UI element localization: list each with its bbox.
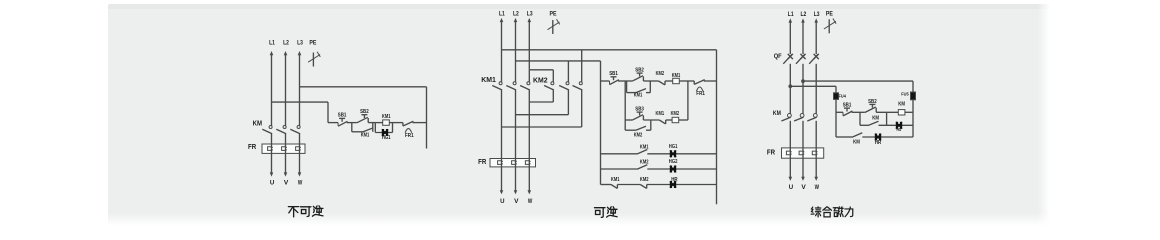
svg-text:KM1: KM1 (382, 114, 391, 120)
svg-text:SB3: SB3 (635, 107, 644, 113)
svg-text:FR1: FR1 (696, 91, 705, 97)
svg-text:L3: L3 (814, 11, 820, 18)
svg-text:W: W (298, 179, 303, 186)
svg-text:KM: KM (253, 120, 263, 127)
svg-text:KM2: KM2 (640, 177, 649, 183)
svg-text:HG1: HG1 (382, 135, 391, 141)
svg-text:KM2: KM2 (656, 71, 665, 77)
svg-text:QF: QF (774, 53, 782, 60)
svg-text:KM2: KM2 (533, 76, 548, 85)
svg-text:KM1: KM1 (611, 177, 620, 183)
svg-text:FU5: FU5 (901, 91, 909, 96)
svg-text:FU4: FU4 (839, 94, 847, 99)
svg-text:KM2: KM2 (671, 111, 680, 117)
svg-text:W: W (528, 198, 533, 205)
svg-text:KM: KM (853, 139, 860, 145)
svg-text:KM1: KM1 (361, 132, 370, 138)
svg-text:PE: PE (550, 10, 557, 17)
svg-text:U: U (270, 179, 275, 186)
svg-text:KM: KM (898, 101, 905, 107)
svg-text:HR: HR (875, 140, 882, 146)
svg-text:KM2: KM2 (634, 132, 643, 138)
svg-text:L2: L2 (283, 40, 289, 47)
svg-text:KM: KM (872, 115, 879, 121)
svg-text:SB2: SB2 (868, 99, 877, 105)
svg-text:U: U (500, 198, 505, 205)
svg-text:L1: L1 (788, 11, 794, 18)
svg-text:HG2: HG2 (669, 159, 678, 165)
svg-text:FR1: FR1 (405, 133, 414, 139)
svg-text:W: W (815, 184, 820, 191)
svg-text:SB2: SB2 (635, 68, 644, 74)
svg-text:V: V (284, 179, 289, 186)
svg-text:KM: KM (773, 110, 781, 117)
svg-text:SB1: SB1 (843, 102, 852, 108)
svg-text:SB1: SB1 (609, 71, 618, 77)
svg-text:L3: L3 (527, 10, 533, 17)
svg-text:V: V (801, 184, 806, 191)
svg-text:L2: L2 (801, 11, 807, 18)
svg-text:FR: FR (478, 159, 486, 166)
svg-text:KM1: KM1 (481, 75, 496, 84)
svg-text:U: U (789, 184, 794, 191)
svg-text:HG: HG (897, 127, 902, 132)
svg-text:L1: L1 (269, 40, 275, 47)
svg-text:KM1: KM1 (656, 111, 665, 117)
svg-text:L2: L2 (513, 10, 519, 17)
svg-text:FR: FR (767, 150, 775, 157)
svg-text:PE: PE (309, 40, 316, 47)
svg-text:V: V (514, 198, 519, 205)
svg-text:SB2: SB2 (360, 109, 369, 115)
svg-text:L1: L1 (499, 10, 505, 17)
svg-text:HG1: HG1 (669, 144, 678, 150)
svg-text:KM1: KM1 (634, 93, 643, 99)
svg-text:L3: L3 (297, 40, 303, 47)
svg-text:FR: FR (248, 144, 256, 151)
svg-text:SB1: SB1 (338, 113, 347, 119)
svg-text:PE: PE (826, 10, 833, 17)
